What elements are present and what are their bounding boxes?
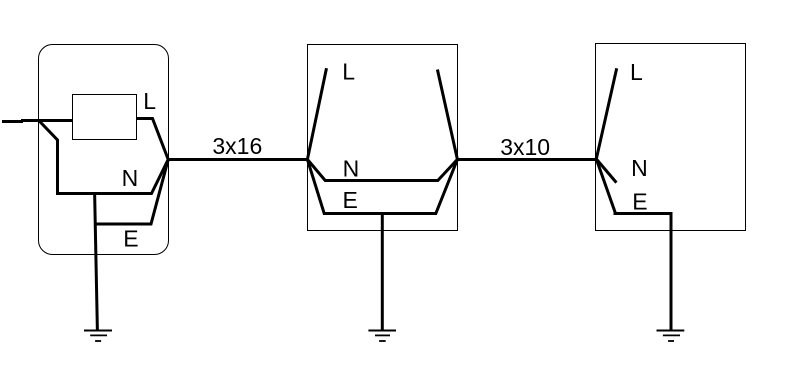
wire: E (right box) (596, 159, 671, 331)
ground (middle) (368, 331, 396, 342)
fuse F1 (73, 95, 137, 140)
wire: N (left box) (39, 121, 168, 194)
label E (left box) (123, 226, 138, 252)
wire: incoming supply L (2, 121, 73, 122)
label E (right box) (632, 188, 647, 214)
wire: L (middle box, right diagonal) (437, 70, 457, 160)
label N (left box) (122, 165, 139, 191)
svg-text:E: E (343, 187, 358, 213)
node D (right box input) (595, 158, 598, 161)
wire: L from fuse to node A (137, 119, 169, 160)
svg-text:L: L (630, 59, 643, 85)
wire: L (middle box, left diagonal) (307, 68, 326, 159)
wire: earth drop (left box) (95, 192, 98, 331)
label 3x16 (212, 133, 262, 159)
wire: earth drop (middle box) (381, 212, 384, 331)
label E (middle box) (343, 187, 358, 213)
wire: N stub (right box) (596, 159, 616, 183)
svg-text:3x16: 3x16 (212, 133, 262, 159)
node C (middle box output) (456, 158, 459, 161)
label N (right box) (631, 155, 648, 181)
label L (left box) (143, 88, 156, 114)
svg-text:3x10: 3x10 (500, 134, 550, 160)
ground (left) (84, 331, 112, 342)
svg-text:N: N (343, 155, 360, 181)
svg-text:E: E (632, 188, 647, 214)
wire: cable 3x10 (457, 158, 596, 161)
distribution board box (middle) (308, 45, 458, 231)
label L (right box) (630, 59, 643, 85)
wire: E (middle box) (307, 159, 457, 213)
consumer box (right) (596, 44, 746, 231)
service cutout box (left, rounded) (39, 45, 169, 255)
label L (middle box) (342, 59, 355, 85)
svg-text:N: N (122, 165, 139, 191)
label 3x10 (500, 134, 550, 160)
svg-text:L: L (342, 59, 355, 85)
wire: cable 3x16 (168, 158, 307, 161)
wire: L (right box diagonal) (596, 68, 616, 159)
node B (middle box input) (306, 158, 309, 161)
svg-text:L: L (143, 88, 156, 114)
wire: N (middle box) (307, 159, 457, 180)
svg-text:N: N (631, 155, 648, 181)
wire: E (left box) (95, 160, 169, 224)
ground (right) (657, 331, 685, 342)
svg-text:E: E (123, 226, 138, 252)
label N (middle box) (343, 155, 360, 181)
node A (left box output) (167, 158, 170, 161)
